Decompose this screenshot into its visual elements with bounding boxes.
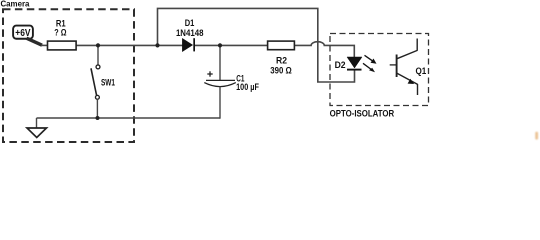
svg-text:? Ω: ? Ω [54, 28, 66, 38]
svg-text:390 Ω: 390 Ω [270, 65, 292, 75]
svg-text:1N4148: 1N4148 [176, 28, 204, 38]
svg-text:SW1: SW1 [101, 77, 115, 87]
svg-text:Camera: Camera [0, 0, 29, 9]
svg-text:Q1: Q1 [416, 66, 427, 76]
svg-text:R2: R2 [276, 55, 287, 65]
svg-text:100 µF: 100 µF [236, 82, 259, 92]
svg-text:OPTO-ISOLATOR: OPTO-ISOLATOR [330, 108, 395, 118]
svg-text:D1: D1 [185, 18, 195, 28]
svg-text:D2: D2 [335, 60, 346, 70]
